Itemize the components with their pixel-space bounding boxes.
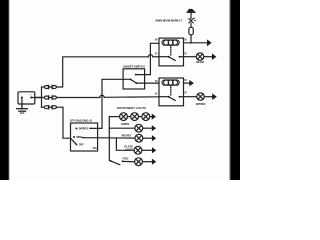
wire top branch	[42, 86, 45, 88]
node S2 input	[129, 78, 131, 80]
svg-text:DIPPED: DIPPED	[79, 128, 89, 131]
wire relay U2 pin 87 to dipped lamp	[184, 96, 197, 98]
svg-text:OFF: OFF	[79, 144, 84, 147]
svg-text:LIGHT: LIGHT	[125, 148, 133, 152]
wire warn lamp up	[190, 13, 192, 19]
connector pair (bottom branch)	[44, 106, 56, 109]
wire relay U1 pin 85 out	[184, 42, 208, 44]
wire	[142, 161, 152, 163]
wire DIPPED output to on/off switch	[90, 79, 130, 128]
wire relay U2 pin 85 out	[184, 82, 190, 84]
switch lever S1	[71, 138, 77, 144]
relay U1 coil	[162, 40, 179, 45]
arrow out (relay 1 coil return)	[207, 39, 212, 46]
arrow up (warn light feed)	[187, 9, 196, 13]
wire battery feed	[35, 87, 42, 107]
lamp SIDES	[135, 124, 143, 132]
relay U2 linkage	[170, 87, 172, 96]
lamp PLATE LIGHT	[134, 146, 142, 154]
wire to fuse	[190, 35, 192, 43]
arrow out (instrument lights)	[152, 114, 156, 120]
on/off switch S2 box	[123, 69, 145, 89]
page background	[0, 0, 240, 180]
wire side output bus	[82, 137, 135, 140]
wire S2 main contact to relay 1 coil	[136, 43, 159, 74]
svg-text:FOG: FOG	[123, 157, 129, 161]
node OFF contact	[75, 143, 77, 145]
relay U1 linkage	[170, 47, 172, 56]
arrow out (rears)	[152, 135, 156, 141]
battery GB1	[18, 92, 35, 104]
node S2 main contact	[135, 74, 137, 76]
wire fog row	[123, 160, 135, 162]
relay U1 (main beam relay) box	[159, 38, 184, 66]
wire sides row	[109, 127, 135, 129]
svg-text:BEAM: BEAM	[196, 60, 204, 64]
lamp REARS	[135, 134, 143, 142]
switch lever S2	[130, 79, 136, 83]
node junction warn light	[190, 42, 192, 44]
wire bottom branch	[42, 106, 45, 108]
lamp instrument 2	[131, 113, 139, 121]
wire hop over coil feed	[148, 55, 152, 57]
arrow out (sides)	[152, 125, 156, 131]
label PLATE LIGHT	[124, 145, 133, 152]
node DIPPED contact	[75, 127, 77, 129]
wire beam lamp out	[204, 56, 212, 58]
relay U1 contact	[159, 56, 184, 61]
arrow out (dipped lamp)	[212, 93, 217, 100]
connector pair (middle branch)	[44, 96, 56, 99]
node SIDE contact	[73, 136, 75, 138]
lamp DIPPED	[197, 93, 204, 100]
svg-text:SIDES: SIDES	[121, 122, 129, 126]
wire	[139, 116, 142, 118]
wire plate light drop	[116, 138, 134, 150]
relay U2 contact	[159, 96, 184, 101]
lamp instrument 3	[142, 113, 150, 121]
arrow out (beam lamp)	[212, 53, 217, 60]
svg-text:OFF-ON(1)-ON(1+2): OFF-ON(1)-ON(1+2)	[70, 120, 92, 123]
wire relay U1 pin 87 to beam lamp	[184, 56, 197, 58]
node S2 dip contact	[135, 82, 137, 84]
wire	[127, 116, 130, 118]
svg-text:REARS: REARS	[122, 134, 132, 138]
relay U2 coil	[162, 80, 179, 85]
right black border bar	[231, 0, 240, 180]
arrow out (plate light)	[152, 147, 156, 153]
wire fuse to warn lamp	[190, 23, 192, 27]
svg-text:ON/OFF SWITCH: ON/OFF SWITCH	[123, 64, 145, 68]
lamp BEAM	[196, 53, 203, 60]
fog switch S3	[110, 160, 124, 165]
svg-text:12V: 12V	[20, 111, 25, 115]
arrow out (fog)	[152, 159, 156, 165]
svg-text:25A: 25A	[93, 147, 98, 150]
fuse F1	[189, 27, 193, 35]
wire	[150, 116, 152, 118]
svg-text:MAIN BEAM WARN LT: MAIN BEAM WARN LT	[156, 20, 183, 23]
wire S2 dip contact to relay 2 coil	[136, 82, 159, 84]
relay U2 (dip beam relay) box	[159, 78, 184, 106]
arrow out (relay 2 coil return)	[189, 80, 194, 86]
wire instrument lights row	[109, 116, 119, 118]
svg-text:-: -	[20, 93, 21, 96]
wire hop over dipped feed	[100, 95, 104, 97]
wire bottom branch to lighting switch	[57, 107, 71, 138]
wire dipped lamp out	[204, 96, 212, 98]
lamp instrument 1	[120, 113, 128, 121]
lighting switch S1 box	[71, 123, 98, 151]
ground (battery earth)	[17, 104, 28, 115]
left black border bar	[0, 0, 8, 180]
connector pair (top branch)	[44, 85, 56, 88]
wire	[142, 149, 152, 151]
svg-text:INSTRUMENT LIGHTS: INSTRUMENT LIGHTS	[117, 106, 146, 110]
wire top branch to relay 1 feed	[57, 57, 159, 87]
svg-text:SIDE: SIDE	[76, 136, 82, 139]
wire	[143, 137, 152, 139]
svg-text:DIPPED: DIPPED	[196, 102, 206, 106]
wire lights bus vertical	[108, 117, 110, 161]
wire middle branch to relay 2 contact	[57, 96, 159, 99]
lamp main beam warn light	[189, 18, 196, 23]
lamp FOG	[135, 158, 143, 166]
wire	[143, 127, 152, 129]
wire middle branch	[42, 97, 45, 99]
